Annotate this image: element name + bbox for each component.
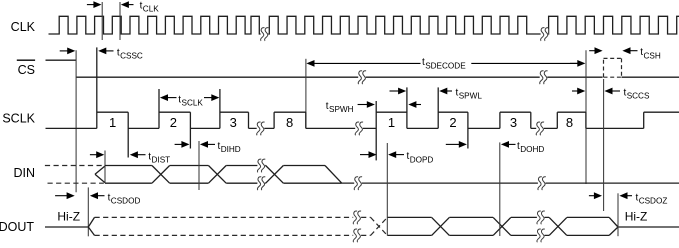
svg-text:1: 1 xyxy=(109,115,116,130)
svg-text:3: 3 xyxy=(230,115,237,130)
svg-text:CLK: CLK xyxy=(11,20,36,34)
svg-text:8: 8 xyxy=(566,115,573,130)
svg-text:DIST: DIST xyxy=(152,156,171,165)
svg-text:DOPD: DOPD xyxy=(410,155,434,164)
svg-text:CSSC: CSSC xyxy=(120,52,143,61)
svg-text:DIHD: DIHD xyxy=(221,145,241,154)
svg-text:Hi-Z: Hi-Z xyxy=(625,210,648,224)
svg-text:CLK: CLK xyxy=(143,5,159,14)
svg-text:Hi-Z: Hi-Z xyxy=(57,210,80,224)
svg-text:DIN: DIN xyxy=(13,166,35,180)
svg-text:SCCS: SCCS xyxy=(627,92,650,101)
svg-text:SDECODE: SDECODE xyxy=(425,61,466,70)
svg-text:CSDOZ: CSDOZ xyxy=(639,197,668,206)
svg-text:2: 2 xyxy=(170,115,177,130)
svg-text:CS: CS xyxy=(18,63,35,77)
svg-text:SCLK: SCLK xyxy=(182,99,204,108)
svg-text:2: 2 xyxy=(449,115,456,130)
svg-text:8: 8 xyxy=(286,115,293,130)
svg-text:DOHD: DOHD xyxy=(520,145,544,154)
svg-text:DOUT: DOUT xyxy=(0,220,34,234)
svg-text:3: 3 xyxy=(510,115,517,130)
svg-text:SPWL: SPWL xyxy=(459,92,483,101)
svg-text:1: 1 xyxy=(388,115,395,130)
svg-text:SCLK: SCLK xyxy=(2,111,35,125)
svg-text:CSH: CSH xyxy=(644,51,661,60)
svg-text:CSDOD: CSDOD xyxy=(111,197,141,206)
svg-text:SPWH: SPWH xyxy=(329,105,354,114)
